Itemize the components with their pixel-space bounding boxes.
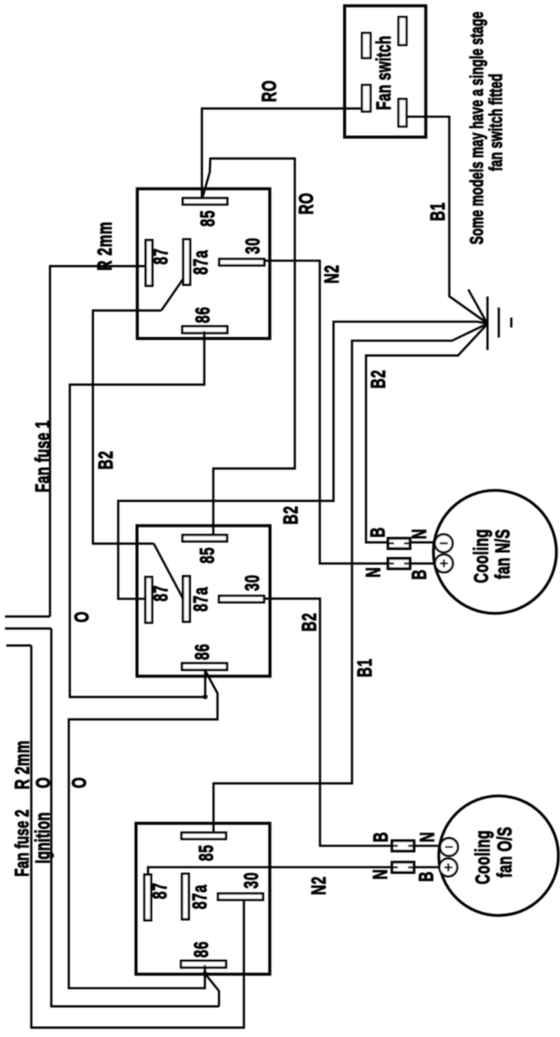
svg-text:B: B <box>414 871 437 882</box>
relay R1 pin 30 label <box>241 238 264 255</box>
svg-text:B: B <box>369 832 392 843</box>
relay R2 pin 85 terminal <box>183 535 228 541</box>
relay R2 pin 87 terminal <box>145 577 152 623</box>
svg-text:Fan fuse 1: Fan fuse 1 <box>31 420 54 492</box>
relay R1 pin 86 label <box>191 307 214 324</box>
relay R2 pin 87a label <box>189 587 212 612</box>
cooling fan O/S motor M2 (circle) <box>439 796 559 916</box>
svg-text:86: 86 <box>191 307 214 324</box>
cooling fan N/S motor M1 (circle) <box>433 490 556 613</box>
cooling fan O/S label line 2 <box>493 827 516 878</box>
relay R1 pin 87 label <box>149 248 172 265</box>
label B2 (relay R2 30 wire) <box>297 613 320 632</box>
svg-text:85: 85 <box>195 547 218 564</box>
cooling fan O/S label line 1 <box>471 830 494 884</box>
svg-text:85: 85 <box>196 210 219 227</box>
svg-text:O: O <box>70 611 93 622</box>
wire B1: fan switch T4 to ground <box>407 117 488 324</box>
cooling fan N/S minus terminal <box>435 534 453 552</box>
svg-text:B1: B1 <box>426 202 449 221</box>
svg-text:RO: RO <box>294 193 317 215</box>
label fan fuse 2 <box>11 809 33 876</box>
wire RO: fan switch T3 to relay R1 pin 85 <box>202 109 363 199</box>
relay R3 pin 87a terminal <box>182 874 189 920</box>
fuse: fan fuse 1 (upper contact) <box>5 615 50 617</box>
svg-text:B: B <box>366 527 389 538</box>
relay R1 (box with pins 85, 87, 87a, 30, 86) <box>137 189 269 339</box>
svg-text:N: N <box>368 869 391 880</box>
svg-text:N: N <box>361 567 384 578</box>
label fan fuse 1 <box>31 420 54 492</box>
wire: relay R1 pin 86 to relay R2 pin 86 <box>70 331 205 697</box>
relay R3 pin 87 terminal <box>144 875 151 921</box>
cooling fan N/S label line 1 <box>469 529 492 583</box>
cooling fan O/S minus terminal <box>440 838 458 856</box>
label N2 (fan O/S plus wire) <box>307 876 330 895</box>
svg-text:87: 87 <box>149 585 172 602</box>
svg-text:B1: B1 <box>353 658 376 677</box>
svg-text:B2: B2 <box>297 613 320 632</box>
connector fan O/S minus wire <box>392 841 414 851</box>
relay R3 pin 87a label <box>188 884 211 909</box>
svg-text:86: 86 <box>189 941 212 958</box>
relay R1 switch arm (87a) <box>162 278 184 310</box>
relay R3 pin 85 label <box>194 845 217 862</box>
relay R3 pin 85 terminal <box>182 833 227 839</box>
svg-text:B2: B2 <box>366 370 389 389</box>
connector fan N/S minus wire <box>388 538 410 548</box>
wire: relay R2 pin 86 to relay R3 pin 86 <box>69 669 218 988</box>
svg-text:30: 30 <box>239 872 262 889</box>
connector fan N/S plus wire <box>388 558 410 568</box>
junction dot relay R3 pin 86 wire <box>203 971 208 976</box>
junction dot relay R2 pin 86 wire <box>203 694 208 699</box>
svg-text:B2: B2 <box>94 451 117 470</box>
svg-text:B2: B2 <box>279 506 302 525</box>
relay R1 pin 30 terminal <box>219 259 264 265</box>
relay R2 (box with pins 85, 87, 87a, 30, 86) <box>137 526 270 677</box>
svg-text:R 2mm: R 2mm <box>10 740 33 789</box>
relay R2 pin 86 terminal <box>182 663 227 670</box>
relay R2 pin 30 label <box>240 574 263 591</box>
relay R1 pin 87a terminal <box>183 239 190 284</box>
wire: fuse 1 to relay R3 pin 86 <box>51 629 219 1007</box>
label B1 (fan switch earth wire) <box>426 202 449 221</box>
svg-text:86: 86 <box>190 643 213 660</box>
fan switch label <box>372 36 395 110</box>
cooling fan O/S plus terminal <box>439 859 457 877</box>
connector fan O/S plus wire <box>392 862 414 872</box>
relay R3 pin 87 label <box>148 883 171 900</box>
relay R1 pin 87a label <box>189 250 212 275</box>
cooling fan N/S label line 2 <box>491 529 514 579</box>
wire B2: relay R1 pin 87a to relay R2 arm <box>93 311 162 544</box>
relay R3 (box with pins 85, 87, 87a, 30, 86) <box>136 823 270 974</box>
wire N2: relay R1 pin 30 to fan N/S plus <box>264 261 435 564</box>
fan switch FS1 (box) <box>345 6 426 137</box>
ground stub wire <box>468 290 486 323</box>
relay R2 pin 87a terminal <box>183 576 190 622</box>
svg-text:87a: 87a <box>189 587 212 612</box>
svg-text:87: 87 <box>148 883 171 900</box>
svg-text:85: 85 <box>194 845 217 862</box>
relay R2 pin 86 label <box>190 643 213 660</box>
ground symbol (earth point) <box>488 297 512 351</box>
svg-text:fan switch fitted: fan switch fitted <box>487 74 507 172</box>
label B (fan O/S plus, fan side) <box>414 871 437 882</box>
label O (ignition feed 3) <box>67 777 90 788</box>
svg-text:fan O/S: fan O/S <box>493 827 516 878</box>
svg-text:N: N <box>407 528 430 539</box>
label B2 (relay R1 87a wire) <box>94 451 117 470</box>
label R 2mm (relay R1 87 wire) <box>93 221 116 270</box>
svg-text:30: 30 <box>240 574 263 591</box>
svg-text:87a: 87a <box>189 250 212 275</box>
wire N2: relay R3 pin 87 to fan O/S plus <box>148 867 440 874</box>
cooling fan N/S plus terminal <box>435 555 453 573</box>
relay R3 pin 86 label <box>189 941 212 958</box>
svg-text:Ignition: Ignition <box>31 812 54 863</box>
label R 2mm (lower feed wire) <box>10 740 33 789</box>
relay R1 pin 85 terminal <box>183 198 228 204</box>
label O (ignition feed 1) <box>70 611 93 622</box>
label B1 (relay R3 85 wire) <box>353 658 376 677</box>
relay R2 pin 30 terminal <box>219 596 264 602</box>
relay R1 pin 85 label <box>196 210 219 227</box>
svg-text:fan N/S: fan N/S <box>491 529 514 579</box>
svg-text:87: 87 <box>149 248 172 265</box>
wire B2: fan N/S minus to ground <box>366 324 487 542</box>
label Ignition <box>31 812 54 863</box>
label O (ignition feed 2) <box>31 777 54 788</box>
fan switch terminal T4 <box>399 99 407 127</box>
svg-text:B: B <box>407 569 430 580</box>
wire B1: relay R3 pin 85 to ground <box>214 324 488 833</box>
wire: fuse 2 to relay R3 pin 30 <box>31 646 244 1028</box>
svg-text:Fan fuse 2: Fan fuse 2 <box>11 809 33 876</box>
svg-text:Some models may have a single: Some models may have a single stage <box>468 11 488 244</box>
relay R3 pin 30 terminal <box>218 894 263 900</box>
svg-text:O: O <box>67 777 90 788</box>
fuse: fan fuse 2 (contact) <box>6 644 31 646</box>
label B2 (relay R2 87 wire) <box>279 506 302 525</box>
label N (fan N/S minus, fan side) <box>407 528 430 539</box>
wire R: fuse 1 to relay R1 pin 87 <box>50 266 146 616</box>
svg-text:N2: N2 <box>320 265 343 284</box>
label B (fan N/S plus, fan side) <box>407 569 430 580</box>
svg-text:N: N <box>415 832 438 843</box>
label B2 (fan N/S minus wire) <box>366 370 389 389</box>
label N (fan O/S plus, harness side) <box>368 869 391 880</box>
label B (fan N/S minus, harness side) <box>366 527 389 538</box>
wire RO: relay R1 pin 85 to relay R2 pin 85 <box>203 159 295 535</box>
label N (fan O/S minus, fan side) <box>415 832 438 843</box>
svg-text:Fan switch: Fan switch <box>372 36 395 110</box>
fuse: fan fuse 1 (lower contact) <box>5 627 51 629</box>
note: single stage fan switch, line 2 <box>487 74 507 172</box>
label N (fan N/S plus, harness side) <box>361 567 384 578</box>
svg-text:87a: 87a <box>188 884 211 909</box>
svg-text:O: O <box>31 777 54 788</box>
relay R2 switch arm (87a) <box>154 544 184 600</box>
wire: relay R3 pin 86 diagonal <box>205 974 219 1007</box>
label B (fan O/S minus, harness side) <box>369 832 392 843</box>
svg-text:30: 30 <box>241 238 264 255</box>
svg-text:R 2mm: R 2mm <box>93 221 116 270</box>
relay R2 pin 87 label <box>149 585 172 602</box>
relay R2 pin 85 label <box>195 547 218 564</box>
svg-text:Cooling: Cooling <box>471 830 494 884</box>
label RO (relay R2 feed) <box>294 193 317 215</box>
svg-text:N2: N2 <box>307 876 330 895</box>
fan switch terminal T2 <box>399 17 407 45</box>
fan switch terminal T1 <box>362 33 371 58</box>
relay R3 pin 86 terminal <box>181 961 226 968</box>
label RO (fan switch wire) <box>257 80 280 102</box>
svg-text:RO: RO <box>257 80 280 102</box>
relay R1 pin 87 terminal <box>146 240 153 286</box>
label N2 (relay R1 pin 30 wire) <box>320 265 343 284</box>
relay R3 pin 30 label <box>239 872 262 889</box>
svg-text:Cooling: Cooling <box>469 529 492 583</box>
note: single stage fan switch, line 1 <box>468 11 488 244</box>
wire B2: relay R2 pin 30 to fan O/S minus <box>264 599 441 846</box>
wire B2: relay R2 pin 87 to ground <box>118 322 487 599</box>
relay R1 pin 86 terminal <box>182 326 227 333</box>
fan switch terminal T3 <box>362 85 371 112</box>
